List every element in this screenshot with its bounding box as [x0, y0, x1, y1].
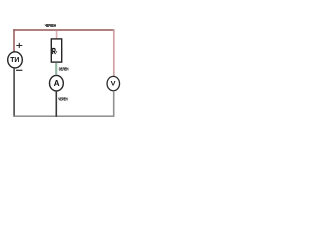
- wire black left vertical: [13, 68, 15, 117]
- svg-text:A: A: [54, 78, 60, 88]
- wire gray voltmeter to bottom: [113, 91, 115, 117]
- svg-text:ТИ: ТИ: [10, 57, 19, 64]
- minus sign: [16, 69, 22, 71]
- svg-text:ЧЕРЕН: ЧЕРЕН: [58, 96, 67, 101]
- wire green resistor to ammeter: [55, 63, 57, 75]
- svg-text:ЗЕЛЕН: ЗЕЛЕН: [59, 66, 69, 71]
- source TI circle: [8, 52, 23, 68]
- wire red top horizontal: [13, 29, 114, 31]
- voltmeter V circle: [107, 76, 120, 90]
- plus sign: [16, 43, 22, 48]
- svg-text:ЧЕРВЕН: ЧЕРВЕН: [45, 23, 56, 28]
- resistor RT: [51, 39, 61, 62]
- wire red left vertical to source: [13, 29, 15, 51]
- ammeter A circle: [50, 75, 64, 91]
- wire black ammeter to bottom: [55, 91, 57, 117]
- svg-text:V: V: [111, 81, 117, 88]
- wire red right vertical to voltmeter: [113, 29, 115, 76]
- wire red stub to resistor top: [56, 31, 58, 39]
- wire gray bottom horizontal: [13, 115, 114, 117]
